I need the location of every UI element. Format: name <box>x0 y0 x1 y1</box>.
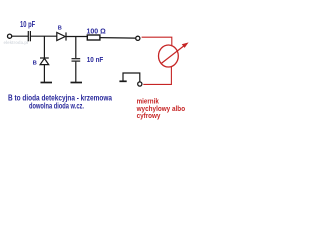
resistor R1 100ohm <box>87 35 100 40</box>
output terminal J2 <box>136 36 140 40</box>
input terminal J1 <box>8 34 12 38</box>
wire <box>43 36 45 57</box>
wire meter positive <box>142 37 172 46</box>
label 100 ohm <box>87 26 106 35</box>
ground <box>41 82 53 84</box>
svg-text:B: B <box>58 25 62 31</box>
diode B shunt <box>40 58 49 65</box>
capacitor C1 10pF <box>28 31 30 41</box>
meter M1 <box>159 45 179 67</box>
note line 2 <box>29 101 84 110</box>
wire <box>75 62 77 82</box>
svg-text:elektroda.pl: elektroda.pl <box>4 40 29 45</box>
ground <box>119 80 126 82</box>
note line 1 <box>8 94 112 103</box>
svg-text:10 nF: 10 nF <box>87 55 104 64</box>
ground <box>71 82 83 84</box>
svg-text:dowolna dioda w.cz.: dowolna dioda w.cz. <box>29 101 84 110</box>
wire meter negative <box>143 67 171 84</box>
wire <box>43 65 45 82</box>
capacitor C2 10nF <box>72 59 81 61</box>
svg-text:B: B <box>33 61 37 67</box>
wire <box>100 37 135 40</box>
diode B series <box>57 32 66 40</box>
wire return to ground <box>123 73 140 82</box>
wire <box>12 35 28 37</box>
watermark <box>4 40 29 45</box>
wire <box>67 36 88 38</box>
svg-text:cyfrowy: cyfrowy <box>137 111 161 120</box>
meter needle arrow <box>161 42 189 64</box>
label 10 pF <box>20 20 35 29</box>
meter caption line 2 <box>136 104 186 113</box>
label 10 nF <box>87 55 104 64</box>
svg-text:10 pF: 10 pF <box>20 20 35 29</box>
svg-text:100 Ω: 100 Ω <box>87 26 106 35</box>
meter caption line 3 <box>137 111 161 120</box>
label B <box>33 61 37 67</box>
wire <box>31 35 57 37</box>
wire <box>75 37 77 59</box>
label B <box>58 25 62 31</box>
return terminal J3 <box>138 82 142 86</box>
meter caption line 1 <box>137 96 160 105</box>
